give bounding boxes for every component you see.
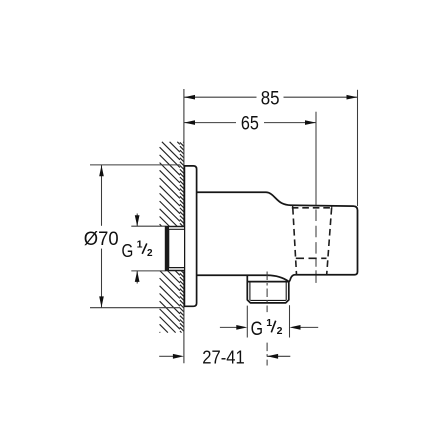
holder: right slant edge	[327, 208, 332, 275]
svg-text:G: G	[122, 240, 134, 261]
dimension 65: right extension / holder axis line	[315, 112, 317, 205]
dimension 65: arrows	[184, 120, 316, 125]
dimension G1/2 (outlet): extension lines	[246, 306, 248, 338]
wall surface fine hatch strip (lower)	[180, 271, 184, 333]
svg-text:2: 2	[147, 248, 153, 259]
dimension G1/2 (outlet): arrow leaders	[220, 326, 237, 328]
wall surface fine hatch strip (upper)	[180, 142, 184, 227]
dimension D70: top extension line	[90, 164, 180, 166]
outlet nipple: thread root lines	[285, 282, 287, 300]
escutcheon plate	[184, 166, 196, 306]
svg-text:1: 1	[137, 238, 143, 250]
dimension G1/2 (outlet): arrows	[236, 325, 300, 330]
dimension D70: dimension line	[101, 165, 103, 226]
svg-text:65: 65	[241, 114, 259, 135]
in-wall G1/2 socket: inner thread line	[169, 229, 184, 267]
holder: corner ticks to body top edge	[292, 205, 294, 208]
wall coarse hatching (upper section)	[160, 142, 180, 227]
dimension 85: dimension line	[184, 96, 257, 98]
dimension 85: right extension line	[357, 90, 359, 206]
holder: hidden bottom edge	[296, 257, 327, 259]
outlet axis centre line	[266, 272, 268, 313]
wall surface / extension line (left reference for 85,65,27-41)	[183, 89, 185, 363]
dimension G1/2 (wall connection): extension lines	[131, 225, 165, 227]
dimension D70: arrows	[99, 165, 104, 307]
svg-text:2: 2	[277, 325, 283, 337]
dimension G1/2 (wall connection): arrows	[135, 215, 140, 282]
svg-text:27-41: 27-41	[202, 347, 244, 368]
dimension 27-41: arrow leaders	[159, 355, 173, 357]
svg-text:Ø70: Ø70	[84, 229, 119, 250]
dimension 85: arrows	[184, 95, 358, 100]
handshower holder (hidden, dashed cone) : top edge	[292, 207, 333, 209]
dimension 27-41: arrows	[173, 354, 278, 359]
body upper outline (top edge, taper, right face, bottom edge, step)	[197, 192, 358, 281]
svg-text:85: 85	[261, 88, 280, 109]
outlet nipple G1/2: outline with chamfers	[247, 275, 288, 303]
in-wall G1/2 socket: outer thread outline	[166, 227, 184, 271]
body bottom edge and outlet bulge curve	[197, 275, 289, 281]
dimension 65: dimension line	[184, 122, 236, 124]
svg-text:G: G	[251, 318, 263, 340]
wall coarse hatching (lower section)	[160, 271, 180, 333]
dimension D70: bottom extension line	[90, 307, 180, 309]
dimension G1/2 (wall connection): arrow leaders	[136, 214, 138, 227]
holder: left slant edge	[293, 208, 297, 275]
svg-text:1: 1	[266, 317, 272, 329]
